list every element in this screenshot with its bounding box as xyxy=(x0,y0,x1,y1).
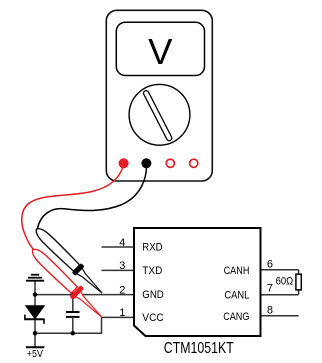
jack COM (black, filled) xyxy=(141,158,151,168)
junction dot rail/diode xyxy=(33,331,37,335)
ground symbol xyxy=(26,275,44,281)
svg-text:60Ω: 60Ω xyxy=(276,275,294,287)
zener diode D1 triangle xyxy=(26,306,45,319)
svg-text:V: V xyxy=(148,31,173,72)
svg-text:+5V: +5V xyxy=(27,348,43,360)
wire resistor bottom lead xyxy=(298,290,300,295)
wire pin2 GND net xyxy=(35,294,134,296)
svg-text:2: 2 xyxy=(119,284,125,296)
black probe xyxy=(32,224,107,298)
resistor R1 60ohm body xyxy=(296,274,301,290)
red probe xyxy=(27,244,107,323)
wire pin1 VCC net xyxy=(35,317,134,333)
+5V supply bar xyxy=(26,346,44,348)
svg-text:4: 4 xyxy=(119,237,125,249)
dial knob slot xyxy=(143,90,173,142)
svg-text:VCC: VCC xyxy=(142,312,164,324)
svg-text:7: 7 xyxy=(267,283,273,295)
zener diode D1 lead xyxy=(34,281,36,348)
capacitor C1 top lead xyxy=(72,295,74,312)
wire pin4 stub xyxy=(102,246,135,248)
svg-text:3: 3 xyxy=(119,260,125,272)
svg-text:CANH: CANH xyxy=(224,265,250,277)
svg-text:RXD: RXD xyxy=(142,241,162,253)
wire resistor top lead xyxy=(298,270,300,274)
jack V (red, filled) xyxy=(119,158,129,168)
svg-text:CANL: CANL xyxy=(224,290,249,302)
IC U1 CTM1051KT body xyxy=(134,228,261,336)
zener diode D1 cathode bar xyxy=(24,318,44,320)
capacitor C1 top plate xyxy=(66,311,80,313)
multimeter body xyxy=(106,10,212,181)
red test lead wire xyxy=(22,165,124,252)
wire pin3 stub xyxy=(102,269,135,271)
capacitor C1 bottom lead xyxy=(72,317,74,333)
junction dot rail/capacitor xyxy=(71,331,75,335)
svg-text:1: 1 xyxy=(119,307,125,319)
multimeter display xyxy=(116,22,204,75)
wire pin6 CANH xyxy=(261,269,299,271)
rotary dial xyxy=(129,84,190,145)
zener diode D1 right tick xyxy=(43,319,45,324)
wire pin7 CANL xyxy=(261,294,299,296)
svg-text:6: 6 xyxy=(267,259,273,271)
svg-text:TXD: TXD xyxy=(142,265,162,277)
capacitor C1 bottom plate xyxy=(66,316,80,318)
jack ring 2 xyxy=(190,159,198,167)
svg-text:CTM1051KT: CTM1051KT xyxy=(164,340,234,357)
svg-text:CANG: CANG xyxy=(223,311,249,323)
svg-text:8: 8 xyxy=(267,305,273,317)
svg-text:GND: GND xyxy=(142,289,164,301)
zener diode D1 left tick xyxy=(24,315,26,320)
black test lead wire xyxy=(38,165,147,229)
jack ring 1 xyxy=(166,159,174,167)
junction dot GND/capacitor xyxy=(71,292,75,296)
wire pin8 CANG xyxy=(261,315,299,317)
junction dot GND/diode xyxy=(33,292,37,296)
